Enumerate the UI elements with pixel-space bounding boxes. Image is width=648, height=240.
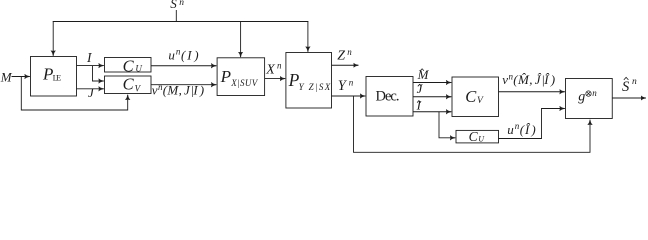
svg-text:I: I bbox=[186, 47, 192, 62]
wire M feedback to C_V bbox=[21, 77, 127, 111]
block C_U right bbox=[456, 130, 499, 143]
svg-text:I: I bbox=[416, 98, 422, 113]
svg-text:,: , bbox=[179, 83, 182, 98]
wire Mhat line bbox=[413, 82, 451, 84]
svg-text:X|SUV: X|SUV bbox=[230, 78, 258, 88]
wire Z^n output bbox=[332, 64, 359, 66]
svg-text:M: M bbox=[0, 69, 13, 84]
wire bus drop into P_X|SUV bbox=[240, 21, 242, 57]
block P_YZ|SX bbox=[286, 53, 332, 109]
svg-text:n: n bbox=[277, 60, 282, 70]
svg-text:X: X bbox=[265, 62, 275, 77]
wire Shat^n output bbox=[612, 97, 646, 99]
hat of Mhat bbox=[420, 69, 424, 71]
svg-text:u: u bbox=[168, 47, 175, 62]
svg-text:g: g bbox=[578, 90, 585, 105]
svg-text:n: n bbox=[347, 47, 352, 57]
svg-text:v: v bbox=[152, 83, 158, 98]
svg-text:P: P bbox=[220, 67, 231, 86]
wire top bus bbox=[53, 21, 308, 23]
block C_V left bbox=[105, 76, 152, 94]
svg-text:(: ( bbox=[181, 47, 186, 62]
svg-text:C: C bbox=[123, 75, 135, 94]
svg-text:): ) bbox=[530, 122, 535, 137]
svg-text:C: C bbox=[469, 129, 479, 144]
otimes of g^xn bbox=[586, 91, 591, 96]
svg-text:Z: Z bbox=[337, 48, 345, 63]
svg-text:U: U bbox=[135, 64, 142, 74]
wire I branch to C_V bbox=[93, 66, 104, 81]
wire v^n(Mhat,Jhat|Ihat) line bbox=[499, 91, 565, 93]
svg-text:Y Z|SX: Y Z|SX bbox=[299, 82, 331, 92]
wire bus drop into P_LE bbox=[52, 21, 54, 56]
svg-text:C: C bbox=[123, 56, 135, 75]
wire I line bbox=[77, 65, 104, 67]
svg-text:n: n bbox=[349, 77, 354, 87]
wire bus drop into P_YZ|SX bbox=[307, 21, 309, 52]
wire u^n(I) line bbox=[151, 65, 216, 67]
block g bbox=[566, 79, 613, 119]
svg-text:LE: LE bbox=[53, 72, 62, 82]
svg-text:S: S bbox=[622, 79, 630, 95]
block C_V right bbox=[452, 77, 499, 117]
wire Ihat branch to C_U bbox=[439, 112, 455, 138]
block P_LE bbox=[31, 57, 77, 97]
svg-text:n: n bbox=[592, 88, 597, 98]
svg-text:): ) bbox=[550, 72, 555, 87]
svg-text:,: , bbox=[529, 72, 532, 87]
svg-text:n: n bbox=[632, 77, 637, 87]
block Dec. bbox=[366, 77, 413, 117]
svg-text:v: v bbox=[502, 72, 508, 87]
svg-text:S: S bbox=[170, 0, 177, 11]
svg-text:M̂: M̂ bbox=[517, 72, 530, 87]
block C_U left bbox=[105, 58, 152, 73]
svg-text:C: C bbox=[465, 87, 477, 106]
wire Y^n line bbox=[332, 95, 366, 97]
svg-text:u: u bbox=[507, 122, 514, 137]
svg-text:n: n bbox=[179, 0, 184, 8]
wire S^n source tick bbox=[175, 10, 177, 22]
svg-text:): ) bbox=[199, 83, 204, 98]
wire M input bbox=[12, 76, 30, 78]
hat of Ihat bbox=[417, 101, 421, 103]
hat of Jhat bbox=[418, 84, 422, 86]
wire X^n line bbox=[265, 78, 286, 80]
wire Ihat line bbox=[413, 111, 451, 113]
hat of Shat^n bbox=[624, 77, 629, 80]
svg-text:M: M bbox=[166, 83, 179, 98]
block P_X|SUV bbox=[217, 58, 265, 96]
wire J line bbox=[77, 88, 104, 90]
wire v^n(M,J|I) line bbox=[151, 84, 216, 86]
svg-text:I: I bbox=[192, 83, 198, 98]
wire Jhat line bbox=[413, 96, 451, 98]
wire Y^n feedback to g bbox=[354, 96, 591, 152]
svg-text:M: M bbox=[417, 67, 430, 82]
svg-text:Dec.: Dec. bbox=[376, 88, 400, 104]
wire u^n(Ihat) line to g bbox=[499, 109, 565, 139]
svg-text:): ) bbox=[193, 47, 198, 62]
